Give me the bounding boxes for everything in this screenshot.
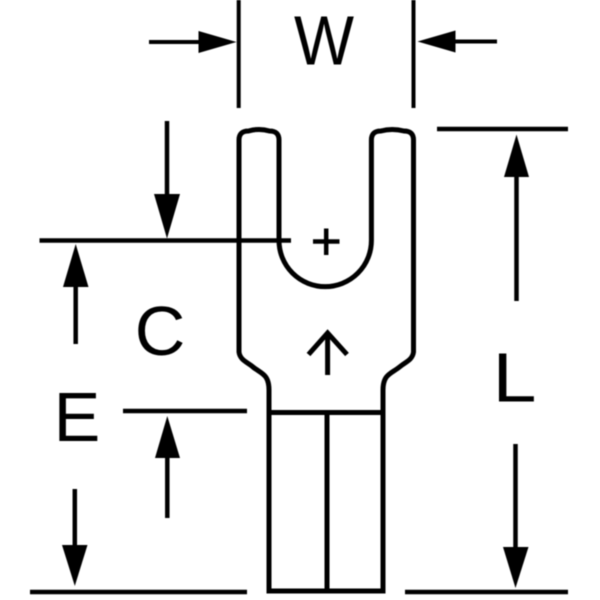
svg-text:C: C [135, 292, 186, 370]
svg-text:L: L [493, 339, 537, 417]
W arrow right [418, 31, 498, 53]
L extension line top [437, 127, 568, 132]
terminal body outline [239, 130, 414, 592]
C/E reference line [40, 238, 292, 243]
C arrow up [155, 416, 180, 518]
bottom reference line left [30, 590, 247, 595]
svg-text:E: E [54, 378, 101, 456]
slot center mark [313, 229, 340, 256]
E arrow up [63, 244, 89, 344]
W arrow left [149, 31, 237, 53]
W extension line right [412, 0, 416, 108]
crimp extension line [123, 409, 247, 414]
L arrow down [503, 444, 529, 588]
terminal crimp line [267, 410, 385, 415]
L arrow up [504, 135, 529, 302]
E arrow down [62, 489, 88, 586]
insertion arrow [309, 333, 348, 375]
C arrow down [154, 121, 180, 239]
bottom reference line right [405, 590, 568, 595]
terminal seam line [325, 413, 330, 592]
svg-text:W: W [294, 2, 354, 80]
W extension line left [237, 0, 241, 108]
